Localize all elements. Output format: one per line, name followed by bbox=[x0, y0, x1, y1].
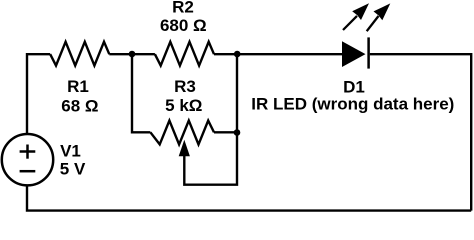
potentiometer wiper arrowhead bbox=[179, 140, 190, 156]
wire parallel-branch right drop bbox=[236, 54, 238, 132]
svg-text:5 V: 5 V bbox=[60, 160, 86, 179]
diode D1 cathode bar bbox=[367, 37, 370, 68]
svg-text:R3: R3 bbox=[174, 77, 196, 96]
svg-text:V1: V1 bbox=[60, 142, 81, 161]
wire bottom bbox=[27, 186, 471, 210]
wire top-left segment bbox=[27, 54, 50, 133]
node junction dot right bbox=[234, 51, 241, 58]
V1 plus sign bbox=[20, 145, 36, 159]
wire R3 right to junction bbox=[214, 131, 237, 133]
wire R1 to R2 bbox=[109, 53, 155, 55]
diode D1 triangle bbox=[342, 41, 366, 67]
wire LED cathode to top-right corner and down right side bbox=[370, 54, 471, 210]
svg-text:R1: R1 bbox=[67, 77, 89, 96]
svg-text:68 Ω: 68 Ω bbox=[61, 96, 98, 115]
svg-text:R2: R2 bbox=[172, 0, 194, 17]
V1 minus sign bbox=[20, 170, 36, 173]
voltage source V1 circle bbox=[2, 134, 53, 185]
LED emission arrow 1 bbox=[343, 3, 369, 30]
resistor R2 bbox=[155, 42, 214, 66]
LED emission arrow 2 bbox=[367, 3, 391, 31]
node junction dot left bbox=[129, 51, 136, 58]
wire wiper return loop bbox=[184, 132, 237, 184]
svg-text:680 Ω: 680 Ω bbox=[160, 16, 207, 35]
wire R2 to LED bbox=[214, 53, 343, 55]
wire parallel-branch left drop bbox=[132, 54, 150, 132]
svg-text:5 kΩ: 5 kΩ bbox=[165, 96, 202, 115]
resistor R1 bbox=[50, 42, 109, 66]
resistor R3 bbox=[150, 121, 214, 145]
svg-text:IR LED (wrong data here): IR LED (wrong data here) bbox=[251, 94, 454, 113]
node junction dot R3 right bbox=[234, 129, 241, 136]
